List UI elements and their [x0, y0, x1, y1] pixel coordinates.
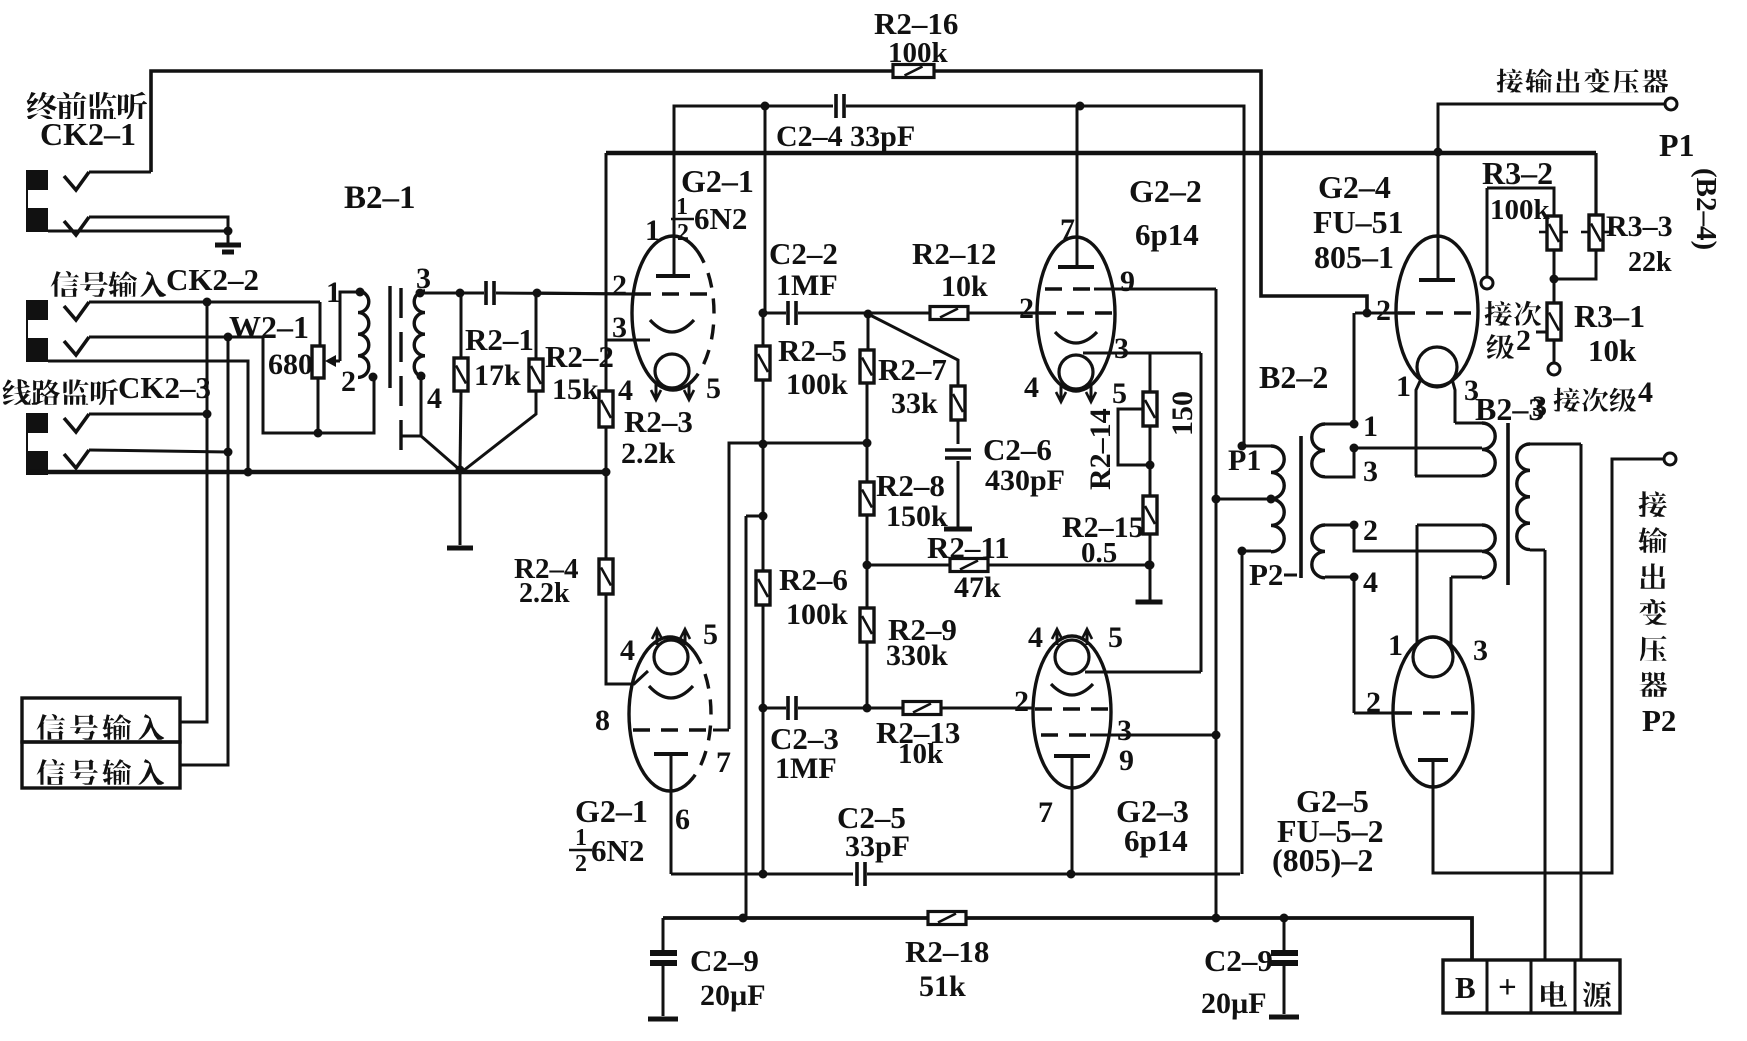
node C2-2 left junction: [759, 309, 768, 318]
svg-text:3: 3: [1473, 634, 1488, 667]
resistor R2-15 0.5: [1143, 496, 1157, 534]
tube G2-1a plate: [656, 274, 690, 278]
svg-text:C2–2: C2–2: [769, 236, 838, 271]
svg-text:3: 3: [612, 311, 627, 344]
capacitor C2-6 430pF: [945, 450, 971, 458]
wire ring bus to input box 2: [180, 337, 228, 765]
svg-text:P2: P2: [1249, 557, 1283, 592]
node ground bus: [30, 470, 606, 475]
tube G2-2 6p14 envelope: [1037, 237, 1115, 391]
svg-text:10k: 10k: [1588, 333, 1637, 368]
wire R3-2 to 接次级2 terminal: [1486, 188, 1489, 276]
tube G2-3 control grid dashes: [1035, 707, 1109, 710]
wire plate to C2-2 node: [764, 106, 767, 313]
wire G2-1b plate bus: [671, 873, 853, 876]
wire G2-1a grid from input: [537, 293, 634, 294]
svg-text:+: +: [1498, 970, 1517, 1006]
svg-text:R2–5: R2–5: [778, 333, 847, 368]
svg-text:2: 2: [1014, 685, 1029, 718]
tube G2-3 screen dashes: [1041, 733, 1095, 736]
svg-text:B2–1: B2–1: [344, 180, 416, 216]
transformer B2-3 filament winding (G2-5): [1417, 524, 1482, 527]
transformer B2-2 primary P1 winding: [1238, 442, 1247, 451]
tube G2-2 screen dashes: [1045, 287, 1099, 290]
svg-text:2: 2: [341, 365, 356, 398]
svg-text:0.5: 0.5: [1081, 537, 1117, 569]
svg-text:680: 680: [268, 348, 313, 381]
jack CK2-1 ring contact: [64, 217, 89, 235]
tube G2-1a grid dashes: [634, 292, 712, 295]
wire divider tap to G2-1b grid: [729, 443, 867, 729]
label 接输出变压器 (top): [1497, 69, 1523, 93]
svg-text:6: 6: [675, 803, 690, 836]
svg-text:C2–9: C2–9: [1204, 943, 1273, 978]
svg-text:2.2k: 2.2k: [621, 437, 676, 470]
terminal bar C2-6 return: [944, 527, 972, 532]
svg-text:430pF: 430pF: [985, 464, 1065, 497]
svg-text:R2–6: R2–6: [779, 562, 848, 597]
wire feedback line to R3-3: [1594, 153, 1597, 215]
svg-text:B: B: [1455, 970, 1476, 1005]
svg-text:33k: 33k: [891, 387, 938, 420]
svg-text:805–1: 805–1: [1314, 239, 1394, 275]
svg-text:6N2: 6N2: [694, 201, 747, 236]
tube G2-3 cathode: [1051, 684, 1093, 695]
wire B2-2 center tap to screens: [1216, 498, 1271, 501]
svg-text:1: 1: [676, 194, 688, 220]
wire G2-3 screen lead: [1090, 734, 1216, 737]
tube G2-1a cathode: [650, 320, 694, 332]
svg-text:W2–1: W2–1: [229, 309, 309, 345]
wire G2-1a plate node: [761, 102, 770, 111]
wire G2-3 cathode lead: [1085, 671, 1201, 674]
tube G2-4 plate: [1419, 278, 1455, 282]
svg-text:47k: 47k: [954, 571, 1001, 604]
jack CK2-3 ring contact: [64, 450, 89, 468]
wire W2-1 bottom: [317, 378, 320, 433]
resistor R2-9 330k: [860, 608, 874, 642]
svg-text:2: 2: [677, 220, 689, 246]
svg-text:CK2–2: CK2–2: [166, 262, 259, 297]
tube G2-1a heater: [655, 354, 689, 388]
svg-text:1: 1: [1396, 370, 1411, 403]
node common ground point: [456, 466, 465, 475]
svg-text:R2–7: R2–7: [878, 352, 947, 387]
wire P2 to G2-3 plate bus: [1241, 551, 1244, 874]
wire G2-3 plate lead: [1071, 756, 1074, 874]
svg-text:100k: 100k: [1490, 194, 1551, 226]
tube G2-5 plate: [1418, 758, 1448, 762]
tube G2-1b plate: [654, 752, 688, 756]
resistor R3-1 10k: [1553, 279, 1556, 303]
wire G2-5 grid from winding 4: [1354, 712, 1395, 715]
transformer B2-2 secondary winding 1-3: [1350, 420, 1359, 429]
svg-text:R3–3: R3–3: [1606, 210, 1673, 243]
resistor R2-18 51k: [928, 912, 966, 925]
resistor R3-3 22k: [1589, 215, 1603, 250]
transformer B2-1 secondary winding: [414, 291, 425, 377]
svg-text:P1: P1: [1659, 127, 1695, 163]
transformer B2-2 secondary winding 2-4: [1350, 521, 1359, 530]
svg-text:2: 2: [1376, 294, 1391, 327]
wire common cathode line: [1200, 353, 1203, 672]
svg-text:100k: 100k: [786, 598, 848, 631]
svg-text:G2–2: G2–2: [1129, 173, 1202, 209]
wire winding 4 to G2-5 grid: [1353, 577, 1356, 713]
svg-text:10k: 10k: [898, 738, 944, 770]
transformer B2-3 core: [1506, 423, 1510, 585]
capacitor C2-3 1MF: [763, 707, 786, 710]
svg-text:G2–1: G2–1: [575, 793, 648, 829]
svg-text:8: 8: [595, 704, 610, 737]
tube G2-4 FU-51 envelope: [1396, 236, 1478, 386]
svg-text:7: 7: [1038, 796, 1053, 829]
jack CK2-2 (signal input): [26, 300, 48, 362]
ground below R2-15: [1136, 600, 1163, 605]
svg-text:2: 2: [612, 269, 627, 302]
svg-text:2: 2: [575, 851, 587, 877]
svg-text:C2–9: C2–9: [690, 943, 759, 978]
svg-text:R2–14: R2–14: [1084, 408, 1117, 490]
wire top feedback line from CK2-1 tip to R2-16 and G2-4 grid branch: [151, 71, 893, 172]
svg-text:20µF: 20µF: [1201, 987, 1267, 1020]
label 接次级2: [1485, 301, 1512, 326]
wire W2-1 wiper to B2-1 primary: [332, 360, 340, 363]
svg-text:33pF: 33pF: [845, 830, 910, 863]
svg-text:(805)–2: (805)–2: [1272, 842, 1373, 878]
wire CK2-2 sleeve to ground bus: [48, 361, 248, 472]
capacitor C2-1 (series): [486, 281, 494, 305]
ground at CK2-1: [227, 231, 230, 243]
svg-text:R2–3: R2–3: [624, 404, 693, 439]
wire winding 1 to G2-4 grid: [1353, 313, 1356, 424]
label 线路监听CK2-3: [3, 379, 32, 405]
svg-text:6N2: 6N2: [591, 833, 644, 868]
wire G2-2 plate lead: [1076, 106, 1079, 267]
svg-text:150: 150: [1166, 391, 1199, 436]
tube G2-2 control grid dashes: [1039, 311, 1113, 314]
svg-text:100k: 100k: [888, 37, 949, 69]
svg-text:CK2–1: CK2–1: [40, 116, 136, 152]
svg-text:5: 5: [703, 618, 718, 651]
svg-text:3: 3: [1114, 332, 1129, 365]
svg-text:R2–2: R2–2: [545, 339, 614, 374]
label 信号输入CK2-2: [51, 271, 80, 297]
resistor R2-16 100k: [893, 65, 934, 78]
resistor R2-13 10k: [903, 702, 941, 715]
potentiometer W2-1 680: [319, 302, 322, 346]
node signal line B2-1 secondary 3: [420, 292, 484, 295]
tube G2-1 first half 6N2 envelope: [632, 236, 714, 390]
label 接次级4: [1554, 388, 1580, 412]
wire G2-1a cathode chain with R2-3 R2-4: [605, 153, 608, 391]
wire R2-12 to G2-2 grid: [968, 312, 1048, 315]
resistor R3-2 100k: [1487, 188, 1554, 216]
transformer B2-3 filament winding (G2-4): [1455, 422, 1482, 425]
tube G2-2 cathode: [1055, 332, 1097, 343]
wire CK2-2 ring to B2-1 primary 2: [263, 337, 374, 433]
wire G2-1b plate lead to C2-5 bus: [670, 754, 673, 874]
tube G2-2 plate: [1058, 265, 1094, 269]
wire screens to B2-2 center tap and B+ bus: [1215, 289, 1218, 918]
jack CK2-3 tip contact: [64, 414, 89, 432]
resistor R2-8 150k: [860, 482, 874, 515]
svg-text:R2–8: R2–8: [876, 468, 945, 503]
svg-text:9: 9: [1119, 744, 1134, 777]
svg-text:R2–1: R2–1: [465, 322, 534, 357]
transformer B2-1 primary winding: [356, 288, 365, 297]
svg-text:7: 7: [716, 746, 731, 779]
svg-text:1: 1: [1388, 629, 1403, 662]
svg-text:4: 4: [620, 634, 635, 667]
svg-text:100k: 100k: [786, 368, 848, 401]
svg-text:5: 5: [1108, 621, 1123, 654]
svg-text:330k: 330k: [886, 639, 948, 672]
svg-text:10k: 10k: [941, 270, 988, 303]
tube G2-2 heater: [1059, 355, 1093, 389]
capacitor C2-9 20uF (left): [662, 918, 665, 950]
svg-text:3: 3: [1117, 714, 1132, 747]
tube G2-4 filament: [1417, 347, 1457, 387]
svg-text:4: 4: [1363, 566, 1378, 599]
wire G2-5 plate to P2 terminal: [1433, 459, 1664, 873]
resistor R2-12 10k: [930, 307, 968, 320]
resistor R2-4 2.2k: [599, 559, 613, 594]
svg-text:R3–2: R3–2: [1482, 155, 1553, 191]
resistor R2-6 100k: [756, 571, 770, 605]
tube G2-1b cathode: [649, 686, 693, 698]
svg-text:4: 4: [1024, 371, 1039, 404]
svg-text:9: 9: [1120, 265, 1135, 298]
tube G2-3 heater: [1055, 640, 1089, 674]
tube G2-3 plate: [1054, 754, 1090, 758]
svg-text:C2–6: C2–6: [983, 432, 1052, 467]
tube G2-1b grid dashes: [633, 728, 713, 731]
svg-text:R2–16: R2–16: [874, 6, 958, 41]
svg-text:1MF: 1MF: [776, 269, 838, 302]
resistor R2-1 17k: [460, 293, 463, 358]
jack CK2-1 (pre-output monitor): [26, 170, 48, 232]
tube G2-4 grid dashes: [1398, 311, 1476, 314]
svg-text:15k: 15k: [552, 373, 599, 406]
svg-text:5: 5: [706, 372, 721, 405]
wire G2-2 cathode lead: [1083, 352, 1201, 355]
tube G2-5 FU-5-2 envelope: [1393, 637, 1473, 787]
svg-text:6p14: 6p14: [1124, 823, 1188, 858]
wire B2-1 secondary 4 to ground node: [402, 376, 421, 436]
svg-text:P1: P1: [1228, 444, 1261, 477]
ground below C2-9 left: [648, 1017, 678, 1022]
svg-text:17k: 17k: [474, 359, 521, 392]
svg-text:2: 2: [1516, 324, 1531, 357]
jack CK2-2 ring contact: [64, 337, 89, 355]
svg-text:2: 2: [1019, 292, 1034, 325]
wire winding 2 to B2-3 filament tap (lower): [1354, 525, 1482, 551]
wire R2-14 wiper loop: [1118, 409, 1150, 465]
svg-text:4: 4: [618, 374, 633, 407]
svg-text:150k: 150k: [886, 500, 948, 533]
potentiometer R2-14 150: [1149, 353, 1152, 392]
wire 接输出变压器 P1 terminal to G2-4 plate: [1438, 104, 1665, 280]
wire B+ riser to plate loads: [746, 515, 763, 518]
svg-text:C2–3: C2–3: [770, 721, 839, 756]
resistor R2-11 47k: [950, 559, 988, 572]
terminal box 信号输入 (2): [22, 742, 180, 788]
svg-text:4: 4: [427, 382, 442, 415]
svg-text:20µF: 20µF: [700, 979, 766, 1012]
svg-text:R2–12: R2–12: [912, 236, 996, 271]
capacitor C2-4 33pF: [836, 94, 844, 118]
jack CK2-3 (line monitor): [26, 413, 48, 475]
svg-text:1: 1: [575, 825, 587, 851]
svg-text:4: 4: [1028, 621, 1043, 654]
wire cathode stub: [606, 339, 650, 342]
wire G2-4 grid from winding 1: [1355, 312, 1398, 315]
label 终前监听: [27, 92, 57, 119]
resistor R2-5 100k: [762, 313, 765, 346]
tube G2-3 6p14 envelope: [1033, 636, 1111, 788]
transformer B2-2 core: [1299, 436, 1303, 578]
svg-text:R3–1: R3–1: [1574, 298, 1645, 334]
svg-text:1MF: 1MF: [775, 752, 837, 785]
svg-text:2.2k: 2.2k: [519, 578, 570, 609]
wire winding 3 to B2-3 filament tap (upper): [1354, 447, 1482, 450]
svg-text:G2–4: G2–4: [1318, 169, 1391, 205]
svg-text:C2–4 33pF: C2–4 33pF: [776, 120, 915, 153]
svg-text:5: 5: [1112, 377, 1127, 410]
tube G2-5 grid dashes: [1395, 711, 1471, 714]
wire G2-2 screen lead: [1094, 288, 1216, 291]
wire B+ bus: [663, 916, 928, 920]
svg-text:22k: 22k: [1628, 247, 1672, 278]
resistor R2-3 2.2k: [599, 391, 613, 427]
svg-text:2: 2: [1363, 514, 1378, 547]
ground below C2-9 right: [1269, 1015, 1299, 1020]
terminal box B + 电 源: [1443, 960, 1620, 1013]
svg-text:B2–2: B2–2: [1259, 359, 1328, 395]
label 接输出变压器 P2 (vertical): [1639, 491, 1667, 517]
svg-text:1: 1: [326, 276, 341, 309]
resistor R2-2 15k: [535, 293, 538, 359]
svg-text:4: 4: [1638, 376, 1653, 409]
transformer B2-3 primary winding 220V: [1530, 443, 1581, 446]
svg-text:CK2–3: CK2–3: [118, 370, 211, 405]
resistor R2-7 33k (divider upper): [867, 314, 870, 350]
svg-text:FU–51: FU–51: [1313, 204, 1404, 240]
terminal box 信号输入 (1): [22, 698, 180, 742]
svg-text:1: 1: [645, 214, 660, 247]
svg-text:7: 7: [1060, 213, 1075, 246]
ground below B2-1: [459, 470, 462, 545]
svg-text:R2–18: R2–18: [905, 934, 989, 969]
svg-text:R2–11: R2–11: [927, 530, 1010, 565]
wire G2-1a plate lead to C2-4 line: [674, 106, 833, 276]
resistor in series with C2-6 (unlabeled): [868, 314, 958, 386]
svg-text:1: 1: [1363, 410, 1378, 443]
wire tip bus to input box 1: [180, 302, 207, 722]
wire CK2-1 sleeve: [48, 230, 228, 233]
transformer B2-2 primary P2 winding: [1271, 499, 1284, 552]
svg-text:3: 3: [1532, 390, 1547, 423]
tube G2-1 second half 6N2 envelope: [629, 637, 711, 791]
capacitor C2-2 1MF: [763, 312, 786, 315]
svg-text:3: 3: [416, 262, 431, 295]
svg-text:3: 3: [1363, 455, 1378, 488]
capacitor C2-5 33pF: [857, 862, 865, 886]
jack CK2-1 tip contact: [64, 172, 89, 190]
svg-text:6p14: 6p14: [1135, 217, 1199, 252]
svg-text:(B2–4): (B2–4): [1690, 168, 1722, 250]
tube G2-1b heater: [654, 640, 688, 674]
jack CK2-2 tip contact: [64, 302, 89, 320]
wire feedback line (level 2): [606, 151, 1596, 155]
svg-text:G2–1: G2–1: [681, 163, 754, 199]
svg-text:51k: 51k: [919, 970, 966, 1003]
svg-text:P2: P2: [1642, 703, 1676, 738]
wire R2-11 node line: [867, 564, 1149, 567]
transformer B2-1 core: [388, 286, 391, 388]
capacitor C2-9 20uF (right): [1283, 918, 1286, 950]
tube G2-5 filament: [1413, 637, 1453, 677]
wire B2-3 primary to power terminals: [1544, 550, 1547, 960]
